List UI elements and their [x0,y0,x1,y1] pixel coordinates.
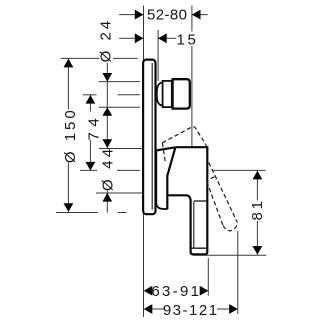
wire dia44 bottom extension [96,192,143,194]
wire dia150 bottom extension [56,212,98,214]
wire 81 dimension line [256,171,258,255]
svg-text:63-91: 63-91 [151,283,201,300]
arrow dia44 bottom [102,193,112,202]
wire handle axis line [80,169,97,171]
lever inner line [193,202,195,248]
arrow 15 right [158,33,167,43]
wire wall extension line [143,6,145,318]
dashed handle open position [162,127,237,231]
wire 15 right extension line [157,30,159,81]
wire dia150 dimension line [67,59,69,212]
arrow 52-80 left [135,10,144,20]
wire 52-80 dimension line [119,14,143,16]
arrow 74 bottom [86,162,96,171]
wire lever bottom extension [193,254,266,256]
svg-text:74: 74 [86,113,103,141]
arrow 81 top [253,171,263,180]
arrow 81 bottom [253,246,263,255]
spout flange [157,82,163,105]
wire spout bottom extension [99,106,140,108]
spout head [173,79,190,108]
wire 63-91 right extension [207,258,209,296]
svg-text:81: 81 [249,198,266,220]
arrow dia24 top [102,73,112,82]
handle body fill [167,147,207,254]
svg-text:52-80: 52-80 [147,6,187,23]
label halos [62,7,264,317]
handle sleeve [156,147,175,209]
arrow 63-91 left [144,286,153,296]
wire 93-121 right extension [237,231,239,314]
escutcheon plate [143,60,155,215]
handle body and lever outline [167,147,207,254]
arrow dia44 top [102,139,112,148]
spout cylinder [163,81,172,107]
arrow 15 left [135,33,144,43]
wire 74 dimension line [89,95,91,171]
svg-text:15: 15 [177,31,199,48]
wire dia150 top extension [61,57,138,59]
plate front inner line [151,63,153,210]
wire dia44 top extension [99,148,143,150]
wire spout top extension [99,81,140,83]
wire 93-121 dimension line [152,308,165,310]
lever joint line [194,200,208,202]
arrow 93-121 right [229,304,238,314]
lever cap line [191,247,207,249]
arrow dia24 bottom [102,107,112,116]
arrow dia150 bottom [64,203,74,212]
svg-text:93-121: 93-121 [163,302,219,319]
arrow 74 top [86,95,96,104]
wire 15 dimension line [119,37,143,39]
arrow 52-80 right [192,10,201,20]
arrow dia150 top [64,59,74,68]
arrowheads [64,10,263,314]
svg-text:Ø 44: Ø 44 [100,146,117,191]
wire dia24 dia44 shared dimension line [106,62,108,213]
wire spout-tip extension line [191,6,193,147]
svg-text:Ø 150: Ø 150 [62,107,79,163]
svg-text:Ø 24: Ø 24 [98,18,115,63]
arrow 63-91 right [200,286,209,296]
wire spout axis line [83,94,97,96]
arrow 93-121 left [144,304,153,314]
